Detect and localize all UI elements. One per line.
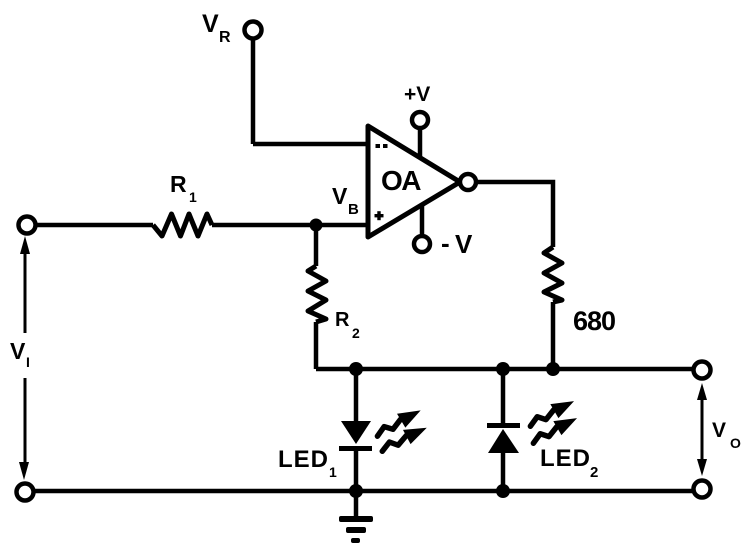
- label R1: [170, 171, 197, 205]
- node -V terminal: [414, 236, 430, 252]
- resistor 680: [544, 247, 562, 302]
- wire VR vertical: [251, 40, 256, 144]
- svg-text:LED: LED: [540, 445, 591, 472]
- wire LED1 cathode to bottom line: [354, 451, 359, 491]
- op-amp non-inverting pin plus mark: [375, 211, 384, 220]
- op-amp U1 OA: [368, 126, 460, 237]
- wire +V to op-amp top: [418, 129, 423, 158]
- resistor R2: [308, 266, 326, 322]
- svg-text:B: B: [348, 201, 359, 218]
- wire VB node to R2: [314, 225, 319, 266]
- node output terminal bottom-right: [694, 481, 711, 498]
- wire input to R1: [37, 223, 153, 228]
- svg-text:OA: OA: [381, 165, 421, 196]
- label VO: [712, 419, 741, 451]
- wire R2 to node line: [314, 322, 319, 369]
- junction node LED2 bottom: [496, 484, 510, 498]
- junction node LED1 bottom ground: [349, 484, 363, 498]
- LED1 light arrows: [372, 404, 430, 454]
- svg-text:2: 2: [590, 464, 598, 481]
- node +V terminal: [412, 112, 428, 128]
- svg-text:V: V: [10, 338, 26, 364]
- label -V: [441, 228, 473, 259]
- wire R1 to op-amp non-inverting input: [212, 223, 368, 228]
- label VB: [332, 183, 359, 218]
- svg-text:V: V: [332, 183, 348, 209]
- VI arrow: [19, 236, 30, 480]
- wire node to LED1 anode: [354, 369, 359, 421]
- svg-text:V: V: [712, 419, 726, 442]
- wire -V to op-amp bottom: [420, 206, 425, 235]
- label VI: [10, 338, 30, 370]
- svg-text:R: R: [335, 309, 350, 331]
- svg-text:680: 680: [573, 306, 615, 336]
- svg-text:R: R: [219, 29, 231, 46]
- junction node VB: [310, 219, 323, 232]
- svg-text:1: 1: [329, 464, 337, 480]
- junction node 680 bottom: [546, 362, 560, 376]
- wire 680 to node line: [551, 302, 556, 369]
- resistor R1: [153, 214, 212, 236]
- wire bottom line: [35, 489, 694, 494]
- node op-amp output terminal: [460, 174, 476, 190]
- label VR: [202, 10, 231, 46]
- wire output node line: [316, 367, 694, 372]
- ground: [339, 516, 373, 543]
- svg-text:V: V: [455, 229, 473, 259]
- op-amp inverting pin minus mark: [376, 144, 388, 148]
- node output terminal top-right: [694, 362, 711, 379]
- svg-text:O: O: [730, 435, 741, 451]
- svg-text:V: V: [202, 10, 219, 38]
- svg-text:I: I: [26, 354, 30, 370]
- LED2 light arrows: [525, 395, 580, 446]
- node VR terminal: [245, 22, 262, 39]
- node input terminal bottom-left: [17, 484, 34, 501]
- svg-text:R: R: [170, 171, 187, 197]
- label LED1: [278, 446, 337, 480]
- svg-text:1: 1: [189, 189, 197, 205]
- wire op-amp output to 680: [477, 182, 553, 247]
- LED D1: [339, 421, 372, 451]
- svg-text:-: -: [441, 228, 450, 258]
- junction node LED2 top: [496, 362, 510, 376]
- node input terminal top-left: [19, 217, 36, 234]
- wire LED2 anode to bottom line: [501, 453, 506, 491]
- label LED2: [540, 445, 598, 481]
- VO arrow: [697, 383, 707, 476]
- svg-text:+V: +V: [404, 83, 430, 106]
- junction node LED1 top: [349, 362, 363, 376]
- wire VR to op-amp inverting input: [253, 142, 368, 147]
- svg-text:LED: LED: [278, 446, 329, 473]
- wire ground stem: [354, 491, 359, 517]
- LED D2: [487, 423, 520, 453]
- label R2: [335, 309, 360, 341]
- wire node to LED2 cathode: [501, 369, 506, 424]
- svg-text:2: 2: [352, 325, 360, 341]
